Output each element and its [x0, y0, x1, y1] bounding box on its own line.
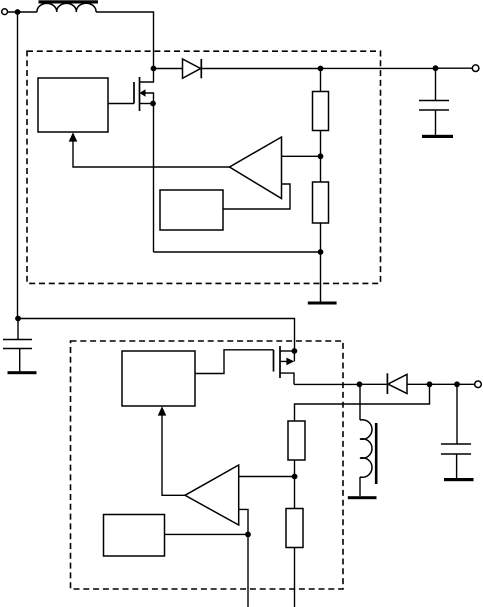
node: divider tap 2 dot	[292, 474, 298, 480]
wire: R3 bottom to divider tap 2	[294, 460, 296, 477]
reference block U4	[104, 515, 165, 557]
wire: C2 bottom lead	[19, 349, 21, 372]
inductor L2 top lead	[359, 384, 361, 420]
transistor Q1 body arrow	[140, 89, 146, 97]
resistor R2	[313, 182, 329, 223]
transistor Q2 drain stub	[280, 350, 294, 352]
wire: tap 2 to R4	[294, 477, 296, 509]
node: Q1 source junction dot	[150, 101, 156, 107]
transistor Q2 channel bar	[279, 346, 281, 378]
transistor Q1 body stub	[145, 93, 154, 104]
wire: C1 node to output terminal	[436, 67, 473, 69]
transistor Q1 channel bar	[139, 77, 141, 111]
transistor Q2 body arrow	[286, 358, 294, 366]
transistor Q1 drain stub	[140, 69, 154, 83]
wire: C1 top lead	[435, 68, 437, 100]
reference block U2	[160, 190, 223, 230]
wire: tap to op-amp A1 input	[282, 155, 321, 157]
ground GND3 (C2)	[8, 371, 37, 374]
wire: divider bottom to ground	[320, 252, 322, 302]
node: U4 output node dot	[245, 532, 251, 538]
node: input rail junction dot	[15, 316, 21, 322]
node: switch node dot	[151, 66, 157, 72]
ground GND2 (C1)	[422, 135, 453, 138]
wire: input terminal to inductor	[8, 11, 38, 13]
wire: A2 inverting input step	[239, 509, 248, 534]
transistor Q2 source stub	[280, 373, 294, 384]
wire: A1 inverting input step	[223, 184, 290, 209]
node: Vout/R1 junction dot	[318, 66, 324, 72]
wire: Q2 source to switch node 2	[294, 383, 360, 385]
wire: tap 2 to op-amp A2 input	[239, 476, 295, 478]
node: C1 junction dot	[433, 65, 439, 71]
wire: A2 output to U3 feedback	[162, 415, 185, 495]
node: Q2 drain junction dot	[292, 348, 298, 354]
wire: tap to R2	[320, 156, 322, 182]
wire: Vout node to C1 node	[321, 67, 436, 69]
node: switch node 2 dot	[357, 381, 363, 387]
wire: U4 to node	[165, 533, 249, 535]
wire: Q1 source down to ground rail	[153, 104, 155, 253]
wire: C3 top lead	[456, 384, 458, 444]
wire: R4 bottom to edge	[294, 548, 296, 607]
inductor L1 core bar	[39, 0, 99, 3]
arrowhead into U3	[158, 406, 167, 415]
wire: node down to edge	[247, 534, 249, 607]
wire: A1 output to U1 feedback	[73, 141, 230, 167]
capacitor C3 plates	[441, 444, 471, 454]
ground GND1	[308, 302, 337, 305]
control block U3	[122, 351, 195, 406]
inductor L1 winding	[37, 3, 96, 12]
wire: input rail down left side	[17, 12, 19, 319]
wire: rail to converter 2 drain	[18, 319, 295, 352]
node: ground-rail junction dot	[318, 249, 324, 255]
control block U1	[38, 78, 108, 132]
ground GND4 (L2)	[348, 496, 377, 499]
diode D2	[387, 373, 407, 394]
wire: R1 bottom lead to tap	[320, 131, 322, 157]
transistor Q1 source stub	[140, 103, 154, 105]
wire: C1 bottom lead	[435, 110, 437, 135]
dashed box: regulator IC 2	[71, 341, 344, 589]
wire: inductor to switch node	[96, 12, 154, 69]
resistor R1	[313, 92, 329, 131]
output terminal OUT1	[472, 65, 479, 72]
wire: switch node to diode D1 anode	[154, 68, 183, 70]
node: C3 junction dot	[454, 381, 460, 387]
dashed box: regulator IC 1	[27, 51, 381, 283]
transistor Q2 gate bar	[273, 350, 275, 372]
capacitor C2 plates	[3, 340, 32, 349]
wire: ground rail (Q1 source to divider bottom)	[154, 251, 321, 253]
wire: feedback tap from output node	[295, 384, 430, 421]
wire: switch node 2 to diode D2 cathode	[360, 383, 388, 385]
wire: diode D1 to Vout node	[201, 68, 320, 70]
transistor Q1 gate bar	[133, 82, 135, 104]
inductor L2 winding	[360, 420, 372, 478]
input terminal IN1	[2, 9, 8, 15]
wire: D2 anode to output terminal 2	[407, 383, 475, 385]
resistor R3	[288, 421, 305, 460]
inductor L2 core bar	[375, 423, 378, 484]
node: input junction dot	[15, 9, 21, 15]
node: feedback node dot	[427, 381, 433, 387]
inductor L2 bottom lead	[359, 477, 361, 496]
wire: R1 top lead	[320, 69, 322, 92]
diode D1	[183, 59, 202, 78]
ground GND5 (C3)	[444, 478, 474, 481]
wire: R2 bottom lead	[320, 223, 322, 252]
wire: C2 top lead	[17, 319, 19, 340]
transistor Q2 body stub	[280, 351, 294, 361]
wire: C3 bottom lead	[456, 454, 458, 478]
output terminal OUT2	[475, 381, 482, 388]
wire: U3 gate drive path	[195, 350, 274, 374]
op-amp A2	[185, 465, 239, 525]
node: feedback tap dot	[318, 153, 324, 159]
op-amp A1	[230, 137, 282, 199]
resistor R4	[286, 509, 303, 548]
capacitor C1 plates	[419, 101, 449, 111]
arrowhead into U1	[69, 132, 78, 141]
transistor Q1 gate lead	[108, 103, 134, 105]
